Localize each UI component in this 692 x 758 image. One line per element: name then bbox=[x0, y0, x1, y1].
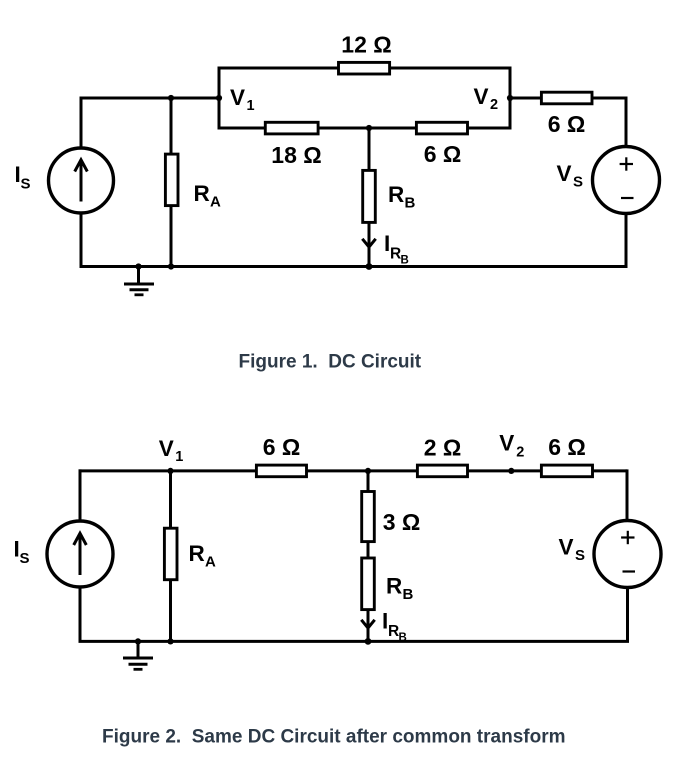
node V2 (fig2) bbox=[508, 468, 514, 474]
svg-text:R: R bbox=[386, 574, 402, 599]
wire: fig1 left rail lower bbox=[80, 213, 83, 267]
svg-text:V: V bbox=[559, 535, 574, 560]
label IRB (fig2) bbox=[382, 609, 407, 645]
wire: fig1 left rail upper bbox=[80, 97, 83, 150]
resistor 12 ohm (fig1) bbox=[339, 62, 390, 74]
svg-text:Figure 1. DC Circuit: Figure 1. DC Circuit bbox=[239, 352, 422, 373]
label Vs (fig1) bbox=[557, 161, 584, 191]
svg-text:S: S bbox=[21, 176, 31, 193]
svg-text:S: S bbox=[20, 550, 30, 567]
wire: fig2 right rail lower bbox=[626, 588, 629, 642]
svg-text:6 Ω: 6 Ω bbox=[548, 434, 586, 460]
label IRB (fig1) bbox=[384, 231, 409, 267]
node: ground junction dot (fig1) bbox=[135, 263, 141, 269]
node: junction dot RB bottom (fig1) bbox=[366, 263, 373, 270]
wire: fig2 left rail upper bbox=[79, 469, 82, 522]
resistor RB (fig2) bbox=[362, 558, 375, 641]
ground (fig1) bbox=[124, 267, 154, 295]
node: junction dot at RA bottom (fig1) bbox=[168, 263, 174, 269]
node: junction dot 3ohm top (fig2) bbox=[365, 468, 371, 474]
label RB (fig2) bbox=[386, 574, 414, 604]
wire: fig2 top rail bbox=[79, 469, 628, 472]
svg-text:A: A bbox=[205, 554, 216, 571]
svg-text:2: 2 bbox=[490, 97, 498, 113]
resistor 18 ohm (fig1) bbox=[265, 122, 318, 134]
current source Is (fig2) bbox=[47, 521, 113, 587]
label RB (fig1) bbox=[388, 182, 416, 212]
wire: fig2 bottom rail bbox=[79, 640, 630, 643]
resistor RA (fig2) bbox=[164, 471, 177, 642]
label Is (fig2) bbox=[14, 537, 30, 568]
svg-text:6 Ω: 6 Ω bbox=[548, 111, 586, 137]
wire: fig1 right rail upper bbox=[625, 97, 628, 148]
svg-text:6 Ω: 6 Ω bbox=[263, 434, 301, 460]
ground (fig2) bbox=[123, 641, 153, 669]
svg-text:18 Ω: 18 Ω bbox=[271, 142, 321, 168]
svg-text:3 Ω: 3 Ω bbox=[383, 509, 421, 535]
svg-text:1: 1 bbox=[175, 449, 183, 465]
svg-text:B: B bbox=[401, 255, 409, 267]
svg-text:S: S bbox=[575, 547, 585, 564]
svg-text:V: V bbox=[474, 84, 489, 109]
label RA (fig2) bbox=[189, 541, 217, 571]
wire: fig1 top-left horizontal (Is to V1) bbox=[80, 97, 220, 100]
resistor 6 ohm right (fig2) bbox=[541, 465, 592, 477]
svg-text:2: 2 bbox=[516, 444, 524, 460]
current arrow IRB (fig1) bbox=[362, 239, 375, 247]
current source Is (fig1) bbox=[49, 148, 114, 213]
label V1 (fig1) bbox=[230, 85, 255, 114]
resistor RB (fig1) bbox=[363, 128, 376, 267]
node V2 (fig1) bbox=[507, 95, 513, 101]
svg-text:12 Ω: 12 Ω bbox=[341, 32, 391, 58]
resistor 6 ohm left (fig2) bbox=[256, 465, 306, 477]
wire: fig1 middle branch bbox=[219, 98, 510, 128]
label Is (fig1) bbox=[15, 162, 31, 193]
label Vs (fig2) bbox=[559, 535, 586, 565]
wire: fig1 bottom rail bbox=[80, 265, 628, 268]
current arrow IRB (fig2) bbox=[361, 620, 374, 628]
resistor 3 ohm (fig2) bbox=[362, 471, 375, 558]
svg-text:R: R bbox=[388, 182, 404, 207]
svg-text:R: R bbox=[194, 181, 210, 206]
svg-text:A: A bbox=[210, 194, 221, 211]
node V1 (fig1) bbox=[216, 95, 222, 101]
label RA (fig1) bbox=[194, 181, 222, 211]
wire: fig2 right rail upper bbox=[626, 469, 629, 521]
svg-text:R: R bbox=[189, 541, 205, 566]
svg-text:B: B bbox=[403, 586, 414, 603]
wire: fig1 right rail lower bbox=[625, 214, 628, 267]
svg-text:V: V bbox=[230, 85, 245, 110]
label V1 (fig2) bbox=[159, 436, 184, 465]
svg-text:1: 1 bbox=[247, 98, 255, 114]
node: junction dot RB bottom (fig2) bbox=[365, 638, 372, 645]
resistor 2 ohm (fig2) bbox=[417, 465, 467, 477]
label V2 (fig2) bbox=[499, 430, 524, 460]
node V1 (fig2) bbox=[167, 468, 173, 474]
svg-text:V: V bbox=[159, 436, 174, 461]
svg-text:V: V bbox=[499, 430, 514, 455]
svg-text:B: B bbox=[405, 195, 416, 212]
wire: fig2 left rail lower bbox=[79, 587, 82, 641]
resistor 6 ohm middle (fig1) bbox=[416, 122, 467, 134]
svg-text:6 Ω: 6 Ω bbox=[424, 141, 462, 167]
svg-text:Figure 2. Same DC Circuit aft: Figure 2. Same DC Circuit after common t… bbox=[102, 727, 566, 748]
voltage source Vs (fig1) bbox=[593, 147, 660, 214]
node: junction dot RB top (fig1) bbox=[366, 125, 372, 131]
svg-text:2 Ω: 2 Ω bbox=[424, 435, 462, 461]
node: ground junction dot (fig2) bbox=[135, 638, 141, 644]
svg-text:V: V bbox=[557, 161, 572, 186]
node: junction dot at RA top (fig1) bbox=[168, 95, 174, 101]
resistor 6 ohm right (fig1) bbox=[541, 92, 592, 104]
label V2 (fig1) bbox=[474, 84, 499, 113]
node: junction dot RA bottom (fig2) bbox=[167, 638, 173, 644]
voltage source Vs (fig2) bbox=[594, 521, 661, 588]
svg-text:S: S bbox=[573, 174, 583, 191]
wire: fig1 V2 to right rail bbox=[510, 97, 626, 100]
resistor RA (fig1) bbox=[165, 98, 178, 267]
wire: fig1 top branch bbox=[219, 68, 510, 97]
